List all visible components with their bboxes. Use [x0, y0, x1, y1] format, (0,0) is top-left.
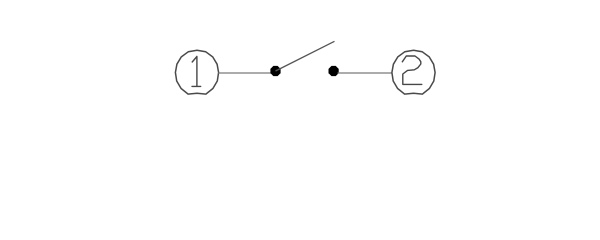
junction dot right [329, 66, 339, 76]
pin number 1 [192, 57, 201, 87]
switch blade [276, 41, 335, 71]
junction dot left [270, 66, 280, 76]
terminal circle 1 [175, 50, 218, 94]
wire right [338, 72, 393, 74]
terminal circle 2 [392, 50, 435, 94]
pin number 2 [402, 56, 422, 84]
wire left [218, 72, 272, 74]
